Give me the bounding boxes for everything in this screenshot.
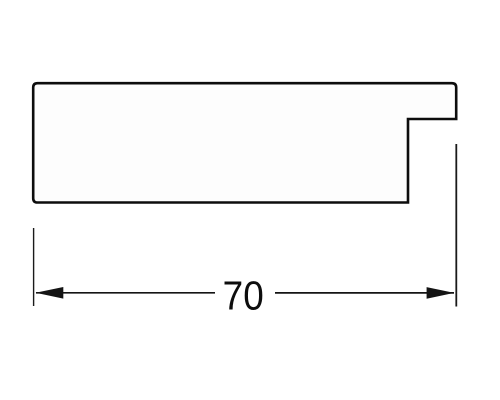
- right extension line: [455, 144, 457, 307]
- dimension line left segment: [36, 292, 215, 294]
- left arrowhead: [36, 287, 64, 299]
- right arrowhead: [427, 287, 455, 299]
- dimension line right segment: [275, 292, 454, 294]
- left extension line: [33, 228, 35, 306]
- svg-text:70: 70: [223, 274, 264, 319]
- moulding profile outline: [33, 83, 456, 202]
